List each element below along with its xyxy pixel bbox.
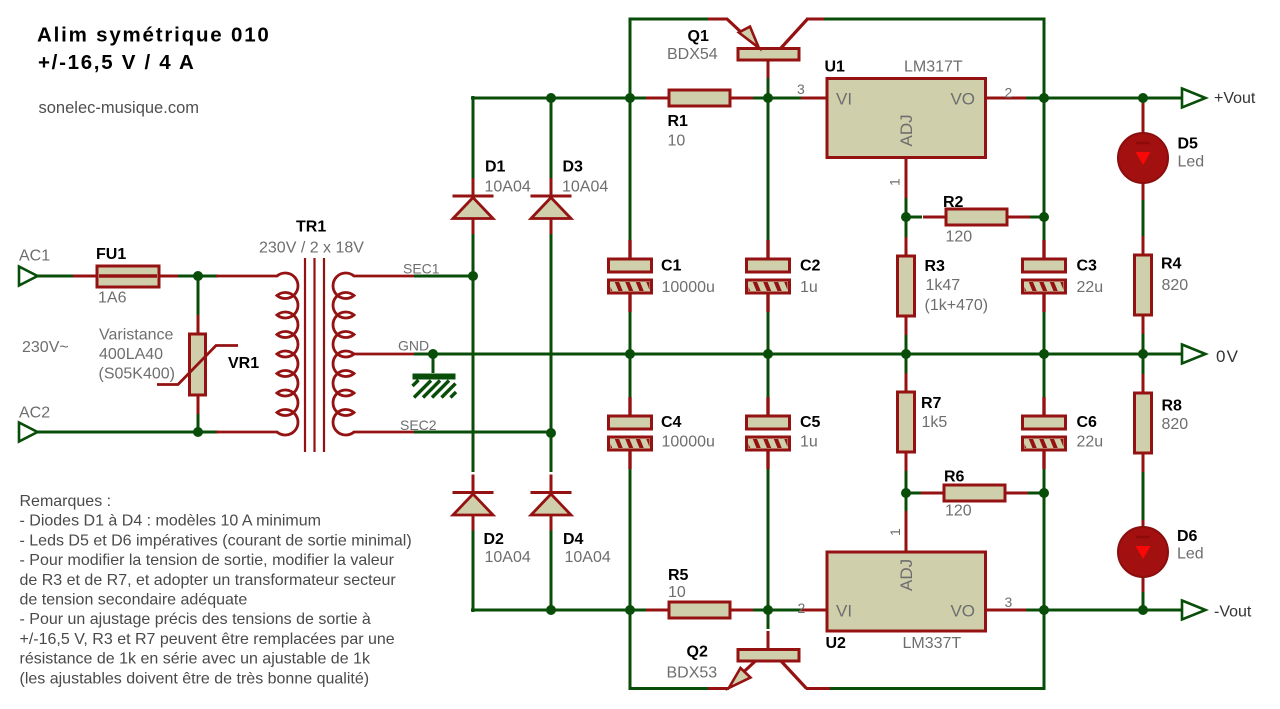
wire R6 right lead green: [1027, 492, 1046, 495]
wire ground symbol stem: [432, 354, 435, 373]
wire R7 bottom to R6/ADJ node: [905, 471, 908, 513]
connector -Vout: [1182, 601, 1206, 620]
transistor Q2 BDX53: [708, 631, 830, 689]
wire +raw row R1 to U1: [751, 97, 801, 100]
svg-text:VO: VO: [950, 602, 975, 621]
wire C1 top stub: [629, 98, 632, 241]
fuse FU1: [73, 266, 178, 287]
wire C5 bottom to -raw row: [767, 467, 770, 612]
junction node 0V C3/C6: [1039, 349, 1049, 359]
svg-text:(1k+470): (1k+470): [925, 297, 989, 314]
svg-text:C4: C4: [661, 414, 682, 431]
wire VR1 bottom stub: [197, 412, 200, 434]
svg-text:10A04: 10A04: [485, 179, 531, 196]
regulator U1 LM317T: [801, 79, 1026, 199]
svg-text:SEC2: SEC2: [400, 417, 437, 433]
svg-text:TR1: TR1: [296, 219, 326, 236]
svg-text:R3: R3: [925, 258, 946, 275]
junction node AC2/VR1: [193, 427, 203, 437]
svg-text:C6: C6: [1077, 414, 1098, 431]
svg-text:(S05K400): (S05K400): [99, 366, 176, 383]
junction node 0V C2/C5: [763, 349, 773, 359]
svg-text:D1: D1: [485, 159, 506, 176]
junction node ADJ1/R2/R3: [901, 212, 911, 222]
wire U1 ADJ to R2/R3 node: [905, 196, 908, 239]
ground symbol: [413, 374, 457, 398]
wire D4 anode stub: [550, 530, 553, 612]
svg-text:+/-16,5 V, R3 et R7 peuvent êt: +/-16,5 V, R3 et R7 peuvent être remplac…: [20, 631, 395, 648]
wire R7 top from 0V: [905, 352, 908, 374]
transformer TR1 primary winding: [216, 273, 298, 435]
svg-text:10A04: 10A04: [565, 549, 611, 566]
resistor R3: [898, 237, 915, 335]
svg-text:C1: C1: [661, 258, 682, 275]
junction node SEC2/D3/D4: [546, 428, 556, 438]
svg-text:10000u: 10000u: [662, 279, 715, 296]
svg-text:1k47: 1k47: [926, 277, 961, 294]
svg-text:230V / 2 x 18V: 230V / 2 x 18V: [259, 240, 364, 257]
svg-text:D3: D3: [563, 159, 584, 176]
svg-text:D2: D2: [484, 531, 505, 548]
wire -raw row R5 to U2: [751, 609, 801, 612]
wire Q1 base to +raw row: [767, 76, 770, 100]
svg-text:0V: 0V: [1216, 347, 1239, 366]
svg-text:U2: U2: [826, 635, 847, 652]
svg-text:Q1: Q1: [688, 28, 709, 45]
svg-text:R8: R8: [1162, 398, 1183, 415]
resistor R8: [1135, 374, 1152, 472]
connector 0V: [1182, 345, 1206, 364]
svg-text:Q2: Q2: [687, 644, 708, 661]
transformer TR1 secondary windings: [333, 273, 414, 435]
wire C4 bottom to -raw row: [629, 467, 632, 612]
varistor VR1: [157, 315, 238, 414]
svg-text:+/-16,5 V / 4 A: +/-16,5 V / 4 A: [38, 51, 196, 74]
wire C1 bottom to 0V: [629, 311, 632, 356]
svg-text:SEC1: SEC1: [403, 261, 440, 277]
wire D5 to R4: [1142, 198, 1145, 236]
junction node GND tap: [428, 349, 438, 359]
svg-text:ADJ: ADJ: [897, 114, 916, 146]
svg-text:ADJ: ADJ: [897, 559, 916, 591]
junction node R6/C6: [1039, 488, 1049, 498]
svg-text:230V~: 230V~: [22, 339, 69, 356]
svg-text:VR1: VR1: [228, 355, 259, 372]
wire D2 anode stub: [472, 530, 475, 612]
LED D5: [1118, 98, 1168, 200]
svg-text:AC1: AC1: [19, 248, 50, 265]
wire U2 ADJ green stub: [905, 491, 908, 513]
wire R3 bottom to 0V: [905, 334, 908, 356]
svg-text:R5: R5: [668, 567, 689, 584]
wire R4 bottom to 0V: [1142, 334, 1145, 356]
wire C5 top from 0V: [767, 352, 770, 398]
svg-text:- Pour un ajustage précis des: - Pour un ajustage précis des tensions d…: [20, 611, 371, 628]
svg-text:BDX53: BDX53: [667, 665, 718, 682]
wire D1 anode / D2 cathode column: [472, 234, 475, 472]
wire D6 bottom to -Vout row: [1142, 590, 1145, 612]
svg-text:1A6: 1A6: [98, 290, 127, 307]
wire C6 top from 0V: [1043, 352, 1046, 398]
wire SEC2 to D3/D4 column: [414, 431, 553, 434]
junction node ADJ2/R6/R7: [901, 488, 911, 498]
wire AC2 input to VR1 node and transformer primary bottom: [36, 431, 218, 434]
junction node R2/C3: [1039, 212, 1049, 222]
wire GND / 0V rail: [414, 353, 1183, 356]
wire R8 top from 0V: [1142, 352, 1145, 374]
transistor Q1 BDX54: [708, 19, 824, 78]
capacitor C6: [1020, 397, 1067, 469]
wire Q1 collector rail to VO node: [822, 19, 1044, 100]
svg-text:120: 120: [945, 503, 972, 520]
svg-text:820: 820: [1162, 277, 1189, 294]
junction node SEC1/D1/D2: [468, 271, 478, 281]
resistor R2: [923, 209, 1030, 225]
svg-text:2: 2: [798, 600, 806, 616]
svg-text:VO: VO: [950, 90, 975, 109]
junction node AC1/VR1: [193, 271, 203, 281]
wire C4 top from 0V: [629, 352, 632, 398]
svg-text:résistance de 1k en série avec: résistance de 1k en série avec un ajusta…: [20, 651, 371, 668]
svg-text:Varistance: Varistance: [99, 327, 174, 344]
svg-text:1k5: 1k5: [922, 414, 948, 431]
svg-text:de R3 et de R7, et adopter un: de R3 et de R7, et adopter un transforma…: [20, 572, 397, 589]
wire Q2 base green stub: [767, 608, 770, 629]
connector AC1: [19, 267, 38, 286]
svg-text:120: 120: [946, 229, 973, 246]
resistor R5: [646, 602, 753, 618]
wire +raw main row left: [471, 97, 647, 100]
wire VO to +Vout arrow: [1025, 97, 1183, 100]
svg-text:BDX54: BDX54: [667, 46, 718, 63]
svg-text:400LA40: 400LA40: [99, 346, 163, 363]
diode D1: [453, 178, 494, 234]
svg-text:22u: 22u: [1077, 279, 1104, 296]
wire R2 left lead green: [906, 216, 922, 219]
wire Q2 collector rail to VO node: [828, 608, 1044, 689]
svg-text:D5: D5: [1178, 136, 1199, 153]
wire R6 left lead green: [906, 492, 922, 495]
svg-text:R2: R2: [943, 194, 964, 211]
wire C3 bottom to 0V: [1043, 311, 1046, 356]
svg-text:10A04: 10A04: [485, 549, 531, 566]
svg-text:sonelec-musique.com: sonelec-musique.com: [39, 99, 200, 117]
svg-text:Led: Led: [1178, 154, 1205, 171]
svg-text:FU1: FU1: [96, 246, 126, 263]
svg-text:C3: C3: [1077, 258, 1098, 275]
diode D2: [453, 475, 494, 531]
svg-text:D6: D6: [1177, 528, 1198, 545]
svg-text:10000u: 10000u: [662, 434, 715, 451]
svg-text:- Leds D5 et D6 impératives (c: - Leds D5 et D6 impératives (courant de …: [20, 532, 412, 549]
wire +raw row D1 cathode stub: [472, 96, 475, 179]
junction node +Vout/VO: [1039, 93, 1049, 103]
diode D3: [531, 178, 572, 234]
svg-text:VI: VI: [836, 602, 852, 621]
wire R8 bottom to D6: [1142, 469, 1145, 521]
wire -Vout column C6/R6: [1043, 466, 1046, 612]
wire +Vout column C3/R2: [1043, 96, 1046, 241]
wire fuse to VR1 node and transformer primary top: [177, 275, 218, 278]
wire D3 anode / D4 cathode column: [550, 234, 553, 472]
transformer TR1 core: [305, 258, 324, 452]
svg-text:C5: C5: [800, 414, 821, 431]
resistor R1: [646, 90, 753, 106]
svg-text:2: 2: [1005, 85, 1013, 101]
svg-text:LM337T: LM337T: [903, 635, 962, 652]
connector AC2: [19, 423, 38, 442]
svg-text:10: 10: [668, 133, 686, 150]
wire Q2 emitter rail: [630, 608, 708, 689]
svg-text:1: 1: [887, 178, 903, 186]
junction node -raw C5/Q2 base: [763, 605, 773, 615]
svg-text:3: 3: [1005, 594, 1013, 610]
svg-text:GND: GND: [398, 338, 429, 354]
diode D4: [531, 475, 572, 531]
LED D6: [1118, 520, 1168, 592]
svg-text:R1: R1: [668, 113, 689, 130]
wire +raw top rail left (Q1 emitter): [630, 19, 708, 98]
junction node -Vout/D6: [1138, 605, 1148, 615]
svg-text:10A04: 10A04: [562, 179, 608, 196]
svg-text:- Pour modifier la tension de: - Pour modifier la tension de sortie, mo…: [20, 552, 395, 569]
regulator U2 LM337T: [801, 511, 1026, 631]
junction node -Vout/VO: [1039, 605, 1049, 615]
svg-text:VI: VI: [836, 90, 852, 109]
svg-text:R6: R6: [944, 469, 965, 486]
junction node 0V C1/C4: [625, 349, 635, 359]
capacitor C3: [1020, 240, 1067, 312]
resistor R7: [898, 373, 915, 471]
svg-text:AC2: AC2: [19, 405, 50, 422]
wire +raw row D3 cathode stub: [550, 96, 553, 179]
svg-text:LM317T: LM317T: [904, 59, 963, 76]
wire U2 VO to -Vout arrow: [1025, 609, 1183, 612]
junction node +Vout/D5: [1138, 93, 1148, 103]
svg-text:D4: D4: [563, 531, 584, 548]
connector +Vout: [1182, 89, 1206, 108]
resistor R6: [921, 485, 1028, 501]
svg-text:(les ajustables doivent être d: (les ajustables doivent être de très bon…: [20, 670, 370, 687]
junction node +raw D3: [546, 93, 556, 103]
wire C2 bottom to 0V: [767, 311, 770, 356]
svg-text:1u: 1u: [800, 434, 818, 451]
svg-text:820: 820: [1162, 416, 1189, 433]
svg-text:R7: R7: [921, 395, 942, 412]
wire SEC1 to D1/D2 column: [414, 275, 475, 278]
svg-text:Led: Led: [1177, 546, 1204, 563]
wire VR1 top stub: [197, 274, 200, 317]
capacitor C5: [744, 397, 791, 469]
svg-text:U1: U1: [825, 59, 846, 76]
svg-text:1: 1: [887, 528, 903, 536]
svg-text:C2: C2: [800, 258, 821, 275]
svg-text:1u: 1u: [800, 279, 818, 296]
junction node 0V R3/R7: [901, 349, 911, 359]
junction node 0V R4/R8: [1138, 349, 1148, 359]
svg-text:- Diodes D1 à D4 : modèles 10: - Diodes D1 à D4 : modèles 10 A minimum: [20, 513, 321, 530]
svg-text:10: 10: [668, 584, 686, 601]
junction node +raw C1: [625, 93, 635, 103]
svg-text:de tension secondaire adéquate: de tension secondaire adéquate: [20, 592, 248, 609]
remarks text block: [20, 493, 412, 687]
wire C2 top stub: [767, 98, 770, 241]
capacitor C2: [744, 240, 791, 312]
svg-text:Alim symétrique 010: Alim symétrique 010: [37, 24, 271, 47]
capacitor C4: [606, 397, 653, 469]
svg-text:+Vout: +Vout: [1214, 90, 1256, 107]
svg-text:3: 3: [797, 81, 805, 97]
wire AC1 input to fuse: [36, 275, 73, 278]
junction node -raw D4: [546, 605, 556, 615]
wire R2 right lead green: [1029, 216, 1046, 219]
junction node -raw C4: [625, 605, 635, 615]
svg-text:22u: 22u: [1077, 434, 1104, 451]
svg-text:Remarques :: Remarques :: [20, 493, 112, 510]
svg-text:-Vout: -Vout: [1214, 604, 1252, 621]
svg-text:R4: R4: [1161, 256, 1182, 273]
resistor R4: [1135, 236, 1152, 334]
junction node +raw C2/Q1 base: [763, 93, 773, 103]
wire -raw main row left: [471, 609, 647, 612]
capacitor C1: [606, 240, 653, 312]
